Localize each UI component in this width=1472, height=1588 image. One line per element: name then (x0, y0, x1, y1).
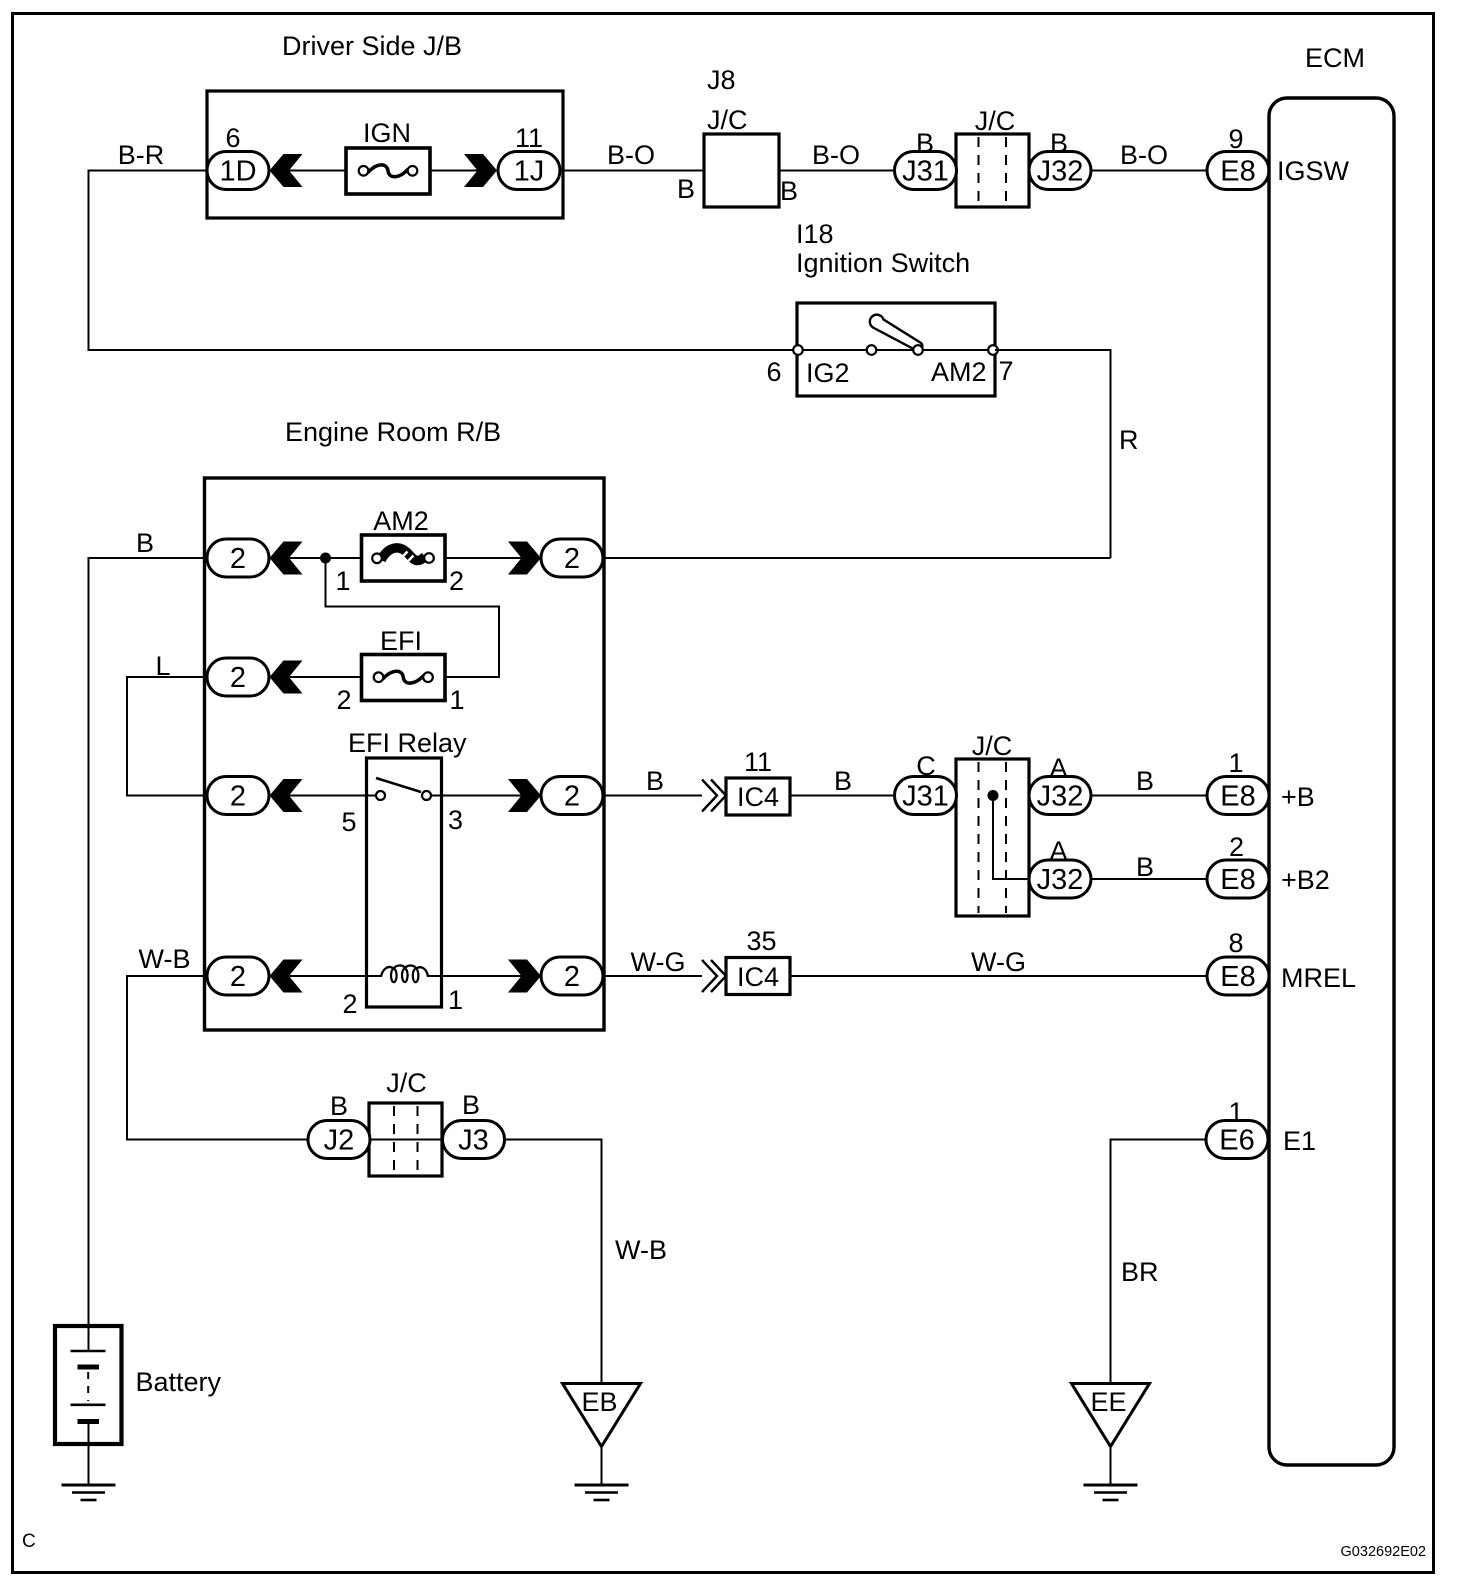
fuse EFI (336, 626, 464, 715)
svg-text:B: B (1136, 852, 1154, 882)
wire: contact 3 to relay-row right connector (431, 795, 541, 797)
connector E8 pin 2 (+B2) (1207, 832, 1330, 898)
connector E8 pin 9 (IGSW) (1207, 124, 1350, 190)
ground triangle EB (563, 1384, 641, 1447)
svg-text:B-O: B-O (812, 140, 860, 170)
svg-text:J2: J2 (324, 1125, 355, 1157)
wire B: J32 to E8 +B (1091, 766, 1210, 796)
svg-text:35: 35 (746, 926, 776, 956)
svg-text:ECM: ECM (1305, 43, 1365, 73)
svg-text:W-B: W-B (139, 944, 191, 974)
wire B: IC4 to J31 (790, 766, 1210, 796)
svg-text:J/C: J/C (975, 106, 1016, 136)
arrowhead into relay-row left connector (270, 779, 303, 812)
connector 2 (EFI row) (207, 658, 269, 696)
svg-text:Driver Side J/B: Driver Side J/B (282, 31, 462, 61)
svg-text:2: 2 (342, 989, 357, 1019)
connector 1D pin 6 (207, 123, 269, 190)
wire B bus: from AM2-row connector down to battery (89, 528, 208, 1351)
node: junction dot on AM2 row (320, 553, 331, 564)
wire from junction dot to EFI fuse pin 1 (326, 558, 500, 677)
svg-text:R: R (1119, 425, 1139, 455)
wire: coil to coil-row right connector (427, 975, 541, 977)
battery (55, 1326, 222, 1485)
svg-text:2: 2 (564, 543, 580, 575)
relay contact pins 5 and 3 (341, 791, 463, 837)
wire B-R from 1D down-left to ignition switch pin 6 (89, 140, 798, 350)
svg-text:W-B: W-B (615, 1235, 667, 1265)
svg-text:J32: J32 (1037, 864, 1084, 896)
wire: AM2 row across fuse to ECM side (R wire) (270, 557, 1111, 559)
svg-text:E8: E8 (1220, 156, 1255, 188)
wire W-B: J3 down to ground EB (505, 1140, 668, 1384)
wire B-O from 1J to J8 (560, 140, 704, 204)
svg-text:B: B (677, 174, 695, 204)
arrowhead into AM2-row right connector (508, 542, 541, 575)
wire: 1D through fuse IGN to 1J (270, 170, 498, 172)
connector 2 (AM2 row, right) (541, 539, 603, 577)
svg-text:E8: E8 (1220, 781, 1255, 813)
arrowhead into AM2-row left connector (270, 542, 303, 575)
connector 2 (relay switch row, left) (207, 777, 269, 815)
connector E8 pin 1 (+B) (1207, 748, 1315, 815)
arrowhead into connector 1J (464, 154, 497, 187)
connector IC4 pin 11 (726, 747, 790, 815)
arrowhead into connector 1D (270, 154, 303, 187)
svg-text:B: B (330, 1091, 348, 1121)
wire B-O from J8 to J31 (779, 140, 1210, 206)
svg-text:G032692E02: G032692E02 (1341, 1544, 1426, 1560)
svg-text:6: 6 (225, 123, 240, 153)
svg-text:Battery: Battery (136, 1367, 222, 1397)
svg-text:E8: E8 (1220, 961, 1255, 993)
connector E8 pin 8 (MREL) (1207, 928, 1356, 995)
ignition switch I18 (766, 219, 1013, 396)
wire B: J32 to E8 +B2 (1091, 852, 1210, 882)
svg-text:9: 9 (1228, 124, 1243, 154)
node: junction dot inside J/C (988, 790, 999, 801)
svg-text:J/C: J/C (972, 731, 1013, 761)
svg-text:B-O: B-O (1120, 140, 1168, 170)
svg-text:Engine Room R/B: Engine Room R/B (285, 417, 501, 447)
svg-text:J/C: J/C (707, 105, 748, 135)
svg-text:B: B (462, 1090, 480, 1120)
svg-text:2: 2 (230, 781, 246, 813)
svg-text:2: 2 (230, 543, 246, 575)
junction connector J/C between J31 and J32 (top row) (956, 106, 1029, 207)
svg-text:I18: I18 (796, 219, 834, 249)
wire L: EFI row to relay row via left bus (127, 651, 207, 796)
svg-text:EB: EB (581, 1387, 617, 1417)
svg-text:8: 8 (1228, 928, 1243, 958)
wire W-B bus: coil row to J2 (127, 944, 309, 1140)
connector J31 (top row, pin B) (895, 128, 957, 190)
svg-text:AM2: AM2 (931, 357, 987, 387)
relay block: Engine Room R/B (205, 417, 605, 1030)
fuse IGN (346, 118, 430, 194)
wire B: relay row to IC4 pin 11 (602, 766, 702, 796)
wire BR: E6 to ground EE (1111, 1140, 1207, 1384)
svg-text:11: 11 (515, 123, 543, 153)
svg-text:B: B (1136, 766, 1154, 796)
svg-text:EFI: EFI (380, 626, 422, 656)
connector 2 (relay coil row, right) (541, 957, 603, 995)
svg-text:MREL: MREL (1281, 963, 1356, 993)
svg-text:B: B (136, 528, 154, 558)
svg-text:2: 2 (230, 662, 246, 694)
arrowhead into relay-row right connector (508, 779, 541, 812)
ground lead and symbol under EB (601, 1447, 603, 1486)
svg-text:L: L (155, 651, 170, 681)
svg-text:EE: EE (1090, 1387, 1126, 1417)
svg-text:B-R: B-R (118, 140, 165, 170)
svg-text:B: B (834, 766, 852, 796)
svg-text:BR: BR (1121, 1257, 1159, 1287)
connector J32 (top row, pin B) (1029, 128, 1091, 190)
svg-text:W-G: W-G (971, 947, 1026, 977)
svg-text:J3: J3 (458, 1125, 489, 1157)
svg-text:J/C: J/C (386, 1068, 427, 1098)
svg-text:2: 2 (230, 961, 246, 993)
relay coil (342, 965, 463, 1019)
relay contact blade (376, 778, 421, 792)
svg-text:1D: 1D (219, 156, 256, 188)
wire W-G: IC4 to E8 MREL (790, 947, 1210, 977)
fuse AM2 (fusible link) (335, 506, 464, 596)
svg-text:2: 2 (564, 961, 580, 993)
svg-text:B: B (646, 766, 664, 796)
connector E6 pin 1 (E1) (1206, 1097, 1316, 1159)
svg-text:J32: J32 (1037, 781, 1084, 813)
svg-text:B: B (1050, 128, 1068, 158)
svg-text:IC4: IC4 (737, 782, 779, 812)
relay EFI Relay (348, 728, 467, 1007)
svg-text:11: 11 (744, 747, 772, 777)
wire inside J/C from dot to J32 pin A (lower) (993, 796, 1029, 880)
wire: EFI row connector to fuse EFI (270, 676, 379, 678)
connector J32 pin A (upper) (1029, 753, 1091, 815)
svg-text:1: 1 (335, 566, 350, 596)
svg-text:J32: J32 (1037, 156, 1084, 188)
svg-text:E6: E6 (1219, 1125, 1254, 1157)
ground lead and symbol under EE (1110, 1447, 1112, 1486)
wire: coil row left connector to coil (270, 975, 383, 977)
svg-text:EFI Relay: EFI Relay (348, 728, 467, 758)
svg-text:W-G: W-G (631, 947, 686, 977)
connector IC4 pin 35 (726, 926, 790, 995)
svg-text:2: 2 (449, 566, 464, 596)
ECM block (1269, 43, 1394, 1465)
connector 2 (AM2 row, left) (207, 539, 269, 577)
connector J3 pin B (443, 1090, 505, 1159)
junction connector J8 J/C (704, 65, 779, 207)
svg-text:J31: J31 (902, 781, 949, 813)
svg-text:+B: +B (1281, 782, 1315, 812)
ground under battery (62, 1484, 116, 1487)
inline connector chevrons at IC4 pin 35 (702, 960, 717, 992)
svg-text:IG2: IG2 (806, 358, 850, 388)
junction connector J/C between J2 and J3 (369, 1068, 442, 1176)
svg-text:A: A (1049, 753, 1067, 783)
svg-text:5: 5 (341, 807, 356, 837)
svg-text:J8: J8 (707, 65, 736, 95)
svg-text:2: 2 (336, 685, 351, 715)
svg-text:3: 3 (448, 805, 463, 835)
connector 2 (relay switch row, right) (541, 777, 603, 815)
connector J2 pin B (308, 1091, 370, 1159)
svg-text:2: 2 (1229, 832, 1244, 862)
svg-text:+B2: +B2 (1281, 865, 1330, 895)
svg-text:6: 6 (766, 357, 781, 387)
svg-text:1: 1 (1228, 1097, 1243, 1127)
svg-text:B: B (916, 128, 934, 158)
svg-text:IGN: IGN (363, 118, 411, 148)
svg-text:2: 2 (564, 781, 580, 813)
svg-text:IGSW: IGSW (1277, 156, 1350, 186)
svg-text:IC4: IC4 (737, 962, 779, 992)
svg-text:1: 1 (449, 685, 464, 715)
junction connector J/C between J31 and J32 (+B row) (956, 731, 1029, 916)
arrowhead into EFI-row connector (270, 661, 303, 694)
junction block: Driver Side J/B (207, 31, 563, 218)
svg-text:Ignition Switch: Ignition Switch (796, 248, 970, 278)
svg-text:1: 1 (448, 985, 463, 1015)
connector J31 pin C (895, 751, 957, 815)
svg-text:AM2: AM2 (373, 506, 429, 536)
svg-text:C: C (22, 1531, 36, 1552)
connector 1J pin 11 (498, 123, 560, 190)
arrowhead into coil-row left connector (270, 960, 303, 993)
svg-text:1J: 1J (514, 156, 545, 188)
svg-text:A: A (1049, 836, 1067, 866)
ground triangle EE (1072, 1384, 1150, 1447)
svg-text:J31: J31 (902, 156, 949, 188)
svg-text:1: 1 (1228, 748, 1243, 778)
svg-text:C: C (916, 751, 936, 781)
connector J32 pin A (lower) (1029, 836, 1091, 898)
svg-text:B-O: B-O (607, 140, 655, 170)
inline connector chevrons at IC4 pin 11 (702, 780, 717, 812)
wire W-G: coil row to IC4 pin 35 (602, 947, 702, 977)
svg-text:E8: E8 (1220, 864, 1255, 896)
connector 2 (relay coil row, left) (207, 957, 269, 995)
svg-text:B: B (780, 176, 798, 206)
wire R from ignition switch pin 7 down to AM2 fuse row (995, 350, 1139, 558)
arrowhead into coil-row right connector (508, 960, 541, 993)
svg-text:E1: E1 (1283, 1126, 1316, 1156)
wire: relay row left connector to contact 5 (270, 795, 381, 797)
svg-text:7: 7 (998, 356, 1013, 386)
